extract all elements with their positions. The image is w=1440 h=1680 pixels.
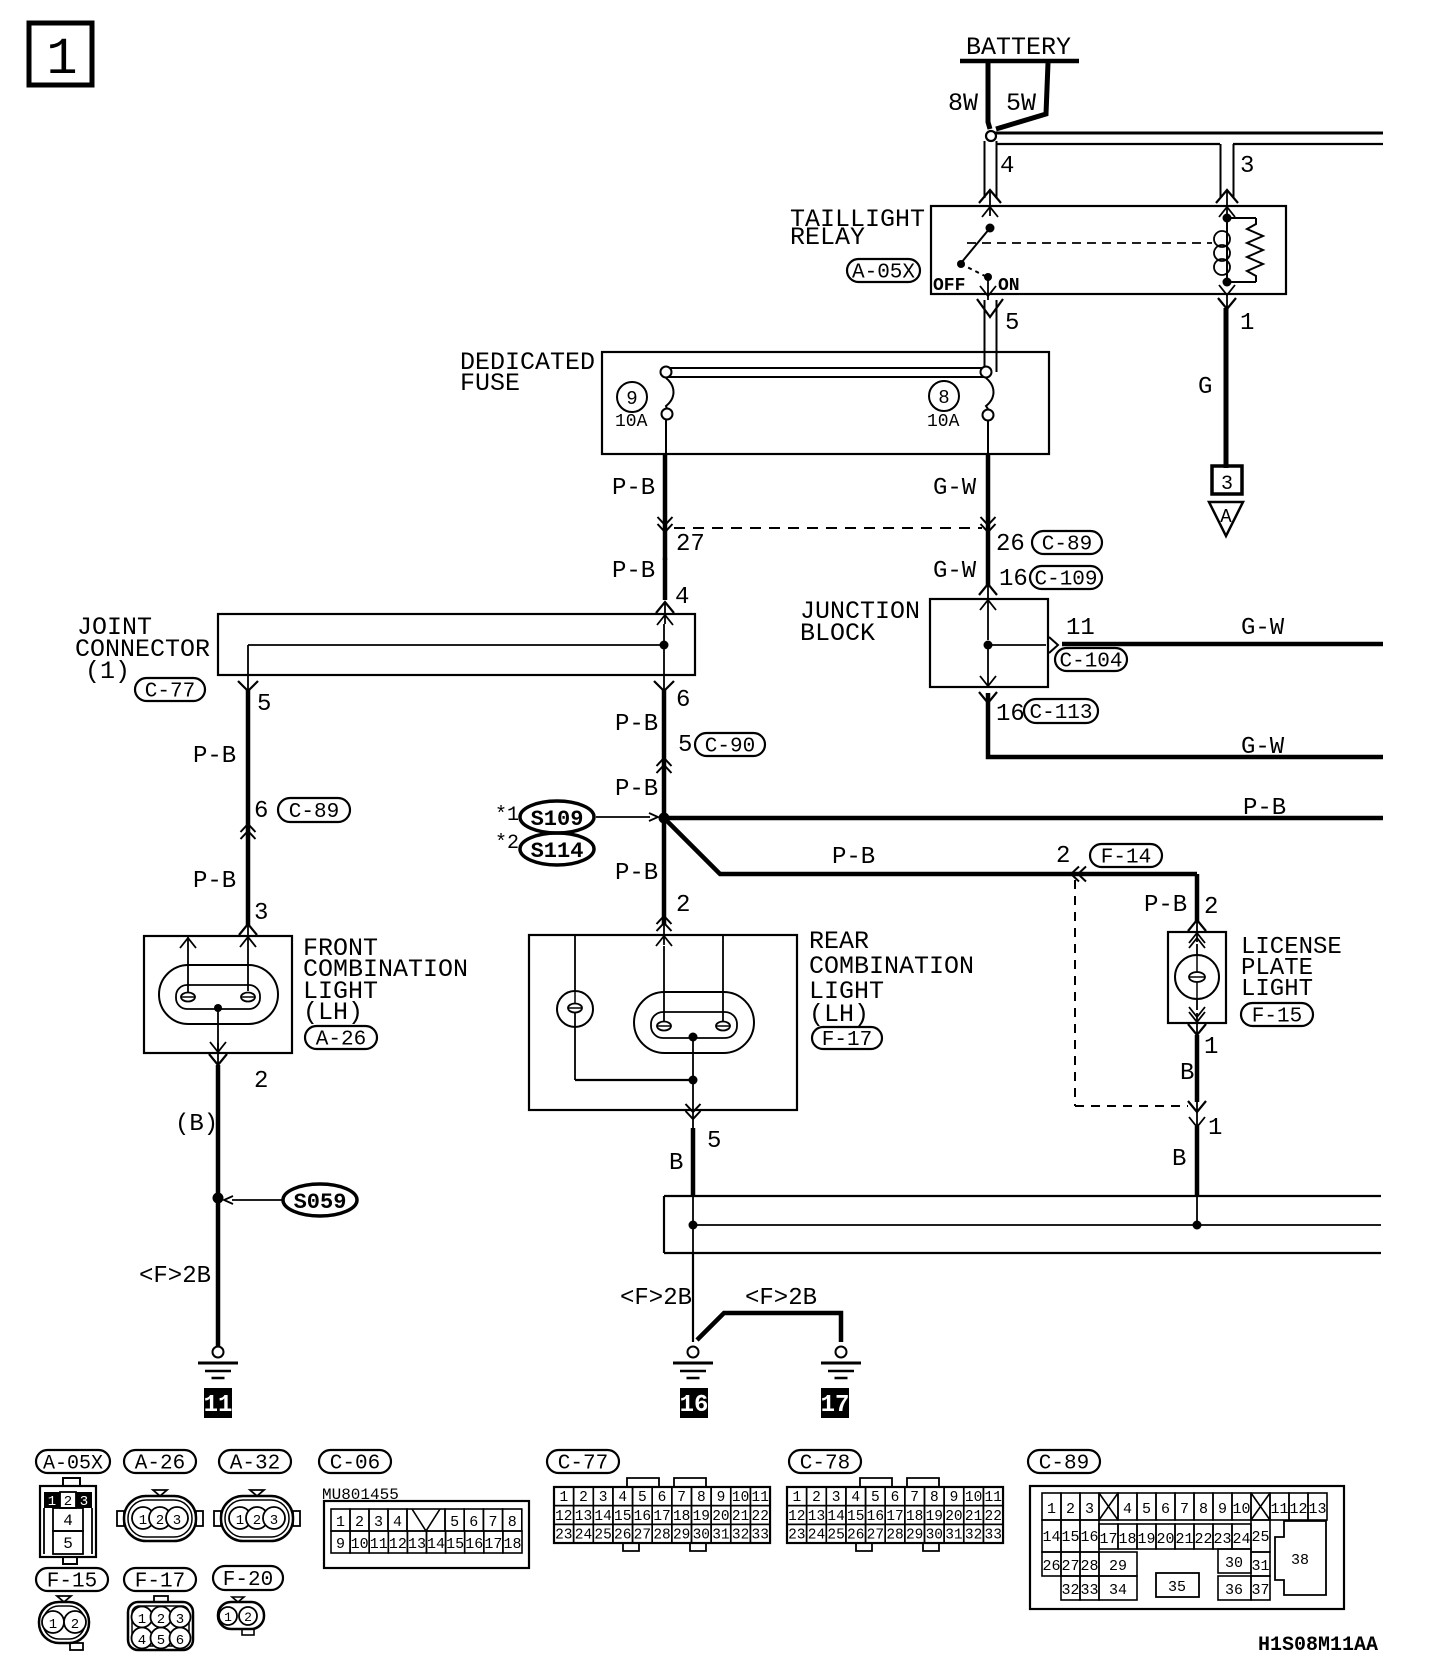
svg-text:31: 31: [1251, 1558, 1269, 1575]
svg-text:S059: S059: [294, 1190, 347, 1215]
svg-text:13: 13: [1308, 1501, 1326, 1518]
svg-text:2: 2: [254, 1068, 268, 1095]
svg-text:9: 9: [336, 1536, 345, 1553]
svg-text:2: 2: [1066, 1501, 1075, 1518]
svg-text:C-89: C-89: [1042, 534, 1092, 557]
svg-text:S109: S109: [531, 807, 584, 832]
svg-text:6: 6: [891, 1490, 900, 1506]
svg-text:25: 25: [594, 1528, 611, 1544]
svg-text:C-06: C-06: [330, 1453, 380, 1476]
svg-text:F-17: F-17: [822, 1029, 872, 1052]
svg-text:32: 32: [732, 1528, 749, 1544]
svg-text:OFF: OFF: [933, 276, 965, 296]
svg-text:19: 19: [1137, 1531, 1155, 1548]
svg-text:37: 37: [1251, 1582, 1269, 1599]
svg-text:20: 20: [945, 1509, 962, 1525]
svg-text:C-77: C-77: [145, 681, 195, 704]
svg-text:2: 2: [812, 1490, 821, 1506]
svg-text:3: 3: [1240, 153, 1254, 180]
svg-text:21: 21: [965, 1509, 982, 1525]
svg-text:3: 3: [173, 1513, 181, 1529]
svg-text:(LH): (LH): [809, 1000, 869, 1029]
svg-text:16: 16: [996, 701, 1025, 728]
svg-text:BATTERY: BATTERY: [966, 33, 1071, 62]
svg-text:17: 17: [886, 1509, 903, 1525]
svg-text:1: 1: [792, 1490, 801, 1506]
svg-text:<F>2B: <F>2B: [745, 1285, 817, 1312]
svg-text:18: 18: [503, 1536, 521, 1553]
svg-text:32: 32: [965, 1528, 982, 1544]
svg-text:1: 1: [139, 1513, 147, 1529]
svg-text:29: 29: [673, 1528, 690, 1544]
svg-text:10: 10: [351, 1536, 369, 1553]
svg-text:27: 27: [634, 1528, 651, 1544]
svg-text:2: 2: [71, 1617, 79, 1633]
svg-text:8: 8: [1199, 1501, 1208, 1518]
svg-text:1: 1: [224, 1610, 232, 1625]
svg-text:G-W: G-W: [933, 475, 977, 502]
svg-text:16: 16: [1080, 1529, 1098, 1546]
svg-text:35: 35: [1168, 1579, 1186, 1596]
svg-text:H1S08M11AA: H1S08M11AA: [1258, 1634, 1378, 1657]
svg-text:15: 15: [446, 1536, 464, 1553]
svg-text:5: 5: [871, 1490, 880, 1506]
svg-text:21: 21: [732, 1509, 749, 1525]
svg-text:11: 11: [370, 1536, 388, 1553]
svg-text:C-89: C-89: [289, 801, 339, 824]
svg-text:11: 11: [1066, 615, 1095, 642]
svg-text:31: 31: [712, 1528, 729, 1544]
svg-text:P-B: P-B: [1144, 892, 1187, 919]
svg-text:G-W: G-W: [1241, 615, 1285, 642]
svg-text:3: 3: [1221, 473, 1233, 496]
svg-text:12: 12: [555, 1509, 572, 1525]
svg-text:15: 15: [614, 1509, 631, 1525]
svg-text:5: 5: [257, 691, 271, 718]
svg-text:14: 14: [594, 1509, 611, 1525]
svg-text:P-B: P-B: [615, 776, 658, 803]
svg-text:19: 19: [926, 1509, 943, 1525]
svg-text:8: 8: [508, 1514, 517, 1531]
svg-text:4: 4: [618, 1490, 627, 1506]
svg-text:5: 5: [63, 1535, 73, 1553]
svg-text:38: 38: [1291, 1552, 1309, 1569]
svg-text:3: 3: [374, 1514, 383, 1531]
svg-text:2: 2: [244, 1610, 252, 1625]
svg-text:8W: 8W: [948, 89, 978, 118]
svg-text:4: 4: [1123, 1501, 1132, 1518]
svg-text:3: 3: [599, 1490, 608, 1506]
svg-text:1: 1: [1208, 1115, 1222, 1142]
svg-text:16: 16: [867, 1509, 884, 1525]
svg-text:6: 6: [676, 687, 690, 714]
svg-text:23: 23: [1213, 1531, 1231, 1548]
svg-text:C-77: C-77: [558, 1453, 608, 1476]
svg-text:P-B: P-B: [612, 475, 655, 502]
svg-text:C-89: C-89: [1039, 1453, 1089, 1476]
svg-text:12: 12: [788, 1509, 805, 1525]
svg-text:11: 11: [1270, 1501, 1288, 1518]
svg-text:2: 2: [579, 1490, 588, 1506]
svg-text:1: 1: [1240, 310, 1254, 337]
svg-text:11: 11: [752, 1490, 769, 1506]
svg-text:12: 12: [1289, 1501, 1307, 1518]
svg-text:8: 8: [930, 1490, 939, 1506]
svg-text:(B): (B): [175, 1111, 218, 1138]
svg-text:24: 24: [1232, 1531, 1250, 1548]
svg-text:8: 8: [938, 387, 949, 409]
svg-text:16: 16: [680, 1392, 709, 1419]
svg-text:5: 5: [157, 1633, 165, 1649]
svg-text:2: 2: [676, 892, 690, 919]
svg-text:F-15: F-15: [47, 1571, 97, 1594]
svg-text:P-B: P-B: [612, 558, 655, 585]
svg-text:30: 30: [693, 1528, 710, 1544]
svg-text:1: 1: [1047, 1501, 1056, 1518]
svg-text:17: 17: [653, 1509, 670, 1525]
svg-text:<F>2B: <F>2B: [620, 1285, 692, 1312]
svg-text:B: B: [1180, 1060, 1194, 1087]
svg-text:14: 14: [1042, 1529, 1060, 1546]
svg-text:25: 25: [1251, 1529, 1269, 1546]
svg-text:B: B: [1172, 1146, 1186, 1173]
svg-text:20: 20: [712, 1509, 729, 1525]
svg-text:26: 26: [614, 1528, 631, 1544]
svg-text:2: 2: [1204, 894, 1218, 921]
svg-text:6: 6: [176, 1633, 184, 1649]
svg-text:*1: *1: [495, 804, 519, 827]
svg-text:27: 27: [676, 531, 705, 558]
svg-text:A: A: [1220, 506, 1232, 528]
svg-text:3: 3: [832, 1490, 841, 1506]
svg-text:22: 22: [752, 1509, 769, 1525]
svg-text:C-90: C-90: [705, 736, 755, 759]
svg-text:20: 20: [1156, 1531, 1174, 1548]
svg-text:6: 6: [1161, 1501, 1170, 1518]
svg-text:3: 3: [1085, 1501, 1094, 1518]
svg-text:1: 1: [336, 1514, 345, 1531]
svg-text:15: 15: [847, 1509, 864, 1525]
svg-text:4: 4: [393, 1514, 402, 1531]
svg-text:27: 27: [1061, 1558, 1079, 1575]
svg-text:16: 16: [634, 1509, 651, 1525]
svg-text:12: 12: [389, 1536, 407, 1553]
svg-text:18: 18: [906, 1509, 923, 1525]
svg-text:FUSE: FUSE: [460, 369, 520, 398]
svg-text:26: 26: [847, 1528, 864, 1544]
svg-text:A-05X: A-05X: [852, 262, 915, 285]
svg-text:16: 16: [465, 1536, 483, 1553]
svg-text:16: 16: [999, 566, 1028, 593]
svg-text:27: 27: [867, 1528, 884, 1544]
svg-text:17: 17: [821, 1392, 850, 1419]
svg-text:23: 23: [788, 1528, 805, 1544]
svg-text:C-78: C-78: [800, 1453, 850, 1476]
svg-text:5: 5: [638, 1490, 647, 1506]
svg-text:1: 1: [49, 1617, 57, 1633]
svg-text:*2: *2: [495, 832, 519, 855]
svg-text:6: 6: [469, 1514, 478, 1531]
svg-text:30: 30: [1225, 1555, 1243, 1572]
svg-text:9: 9: [950, 1490, 959, 1506]
svg-text:6: 6: [254, 798, 268, 825]
svg-text:17: 17: [1099, 1531, 1117, 1548]
svg-text:4: 4: [675, 584, 689, 611]
svg-text:17: 17: [484, 1536, 502, 1553]
svg-text:<F>2B: <F>2B: [139, 1263, 211, 1290]
svg-text:11: 11: [985, 1490, 1002, 1506]
svg-text:5W: 5W: [1006, 89, 1036, 118]
svg-text:26: 26: [1042, 1558, 1060, 1575]
svg-text:G-W: G-W: [933, 558, 977, 585]
svg-text:21: 21: [1175, 1531, 1193, 1548]
svg-text:4: 4: [63, 1512, 73, 1530]
svg-text:C-109: C-109: [1034, 569, 1097, 592]
svg-text:A-26: A-26: [316, 1029, 366, 1052]
svg-text:7: 7: [677, 1490, 686, 1506]
svg-text:10: 10: [965, 1490, 982, 1506]
svg-text:F-14: F-14: [1101, 847, 1151, 870]
svg-text:22: 22: [1194, 1531, 1212, 1548]
svg-text:7: 7: [910, 1490, 919, 1506]
svg-text:28: 28: [886, 1528, 903, 1544]
svg-text:G: G: [1198, 374, 1212, 401]
svg-text:(LH): (LH): [303, 998, 363, 1027]
svg-text:14: 14: [427, 1536, 445, 1553]
svg-text:5: 5: [707, 1128, 721, 1155]
svg-text:6: 6: [658, 1490, 667, 1506]
svg-text:2: 2: [1056, 843, 1070, 870]
svg-text:28: 28: [1080, 1558, 1098, 1575]
svg-text:2: 2: [157, 1612, 165, 1628]
svg-text:P-B: P-B: [1243, 795, 1286, 822]
svg-text:10A: 10A: [927, 412, 960, 432]
svg-text:29: 29: [1109, 1558, 1127, 1575]
svg-text:1: 1: [559, 1490, 568, 1506]
svg-text:11: 11: [204, 1392, 233, 1419]
svg-text:2: 2: [355, 1514, 364, 1531]
svg-text:7: 7: [488, 1514, 497, 1531]
svg-text:2: 2: [156, 1513, 164, 1529]
svg-text:LIGHT: LIGHT: [1241, 976, 1313, 1003]
svg-text:18: 18: [1118, 1531, 1136, 1548]
svg-text:1: 1: [236, 1513, 244, 1529]
svg-text:22: 22: [985, 1509, 1002, 1525]
svg-text:A-32: A-32: [230, 1453, 280, 1476]
svg-text:B: B: [669, 1150, 683, 1177]
svg-text:33: 33: [985, 1528, 1002, 1544]
svg-text:34: 34: [1109, 1582, 1127, 1599]
svg-text:13: 13: [408, 1536, 426, 1553]
svg-text:P-B: P-B: [615, 860, 658, 887]
svg-text:5: 5: [1142, 1501, 1151, 1518]
svg-text:RELAY: RELAY: [790, 223, 865, 252]
svg-text:10: 10: [732, 1490, 749, 1506]
svg-text:10: 10: [1232, 1501, 1250, 1518]
svg-text:P-B: P-B: [193, 743, 236, 770]
svg-text:14: 14: [827, 1509, 844, 1525]
svg-text:S114: S114: [531, 839, 584, 864]
svg-text:9: 9: [626, 388, 637, 410]
svg-text:ON: ON: [998, 276, 1020, 296]
svg-text:P-B: P-B: [615, 711, 658, 738]
svg-text:28: 28: [653, 1528, 670, 1544]
svg-text:4: 4: [851, 1490, 860, 1506]
svg-text:4: 4: [138, 1633, 146, 1649]
svg-text:26: 26: [996, 531, 1025, 558]
svg-text:13: 13: [808, 1509, 825, 1525]
svg-text:24: 24: [808, 1528, 825, 1544]
svg-text:4: 4: [1000, 153, 1014, 180]
svg-text:A-05X: A-05X: [43, 1452, 103, 1475]
svg-text:7: 7: [1180, 1501, 1189, 1518]
svg-text:9: 9: [1218, 1501, 1227, 1518]
svg-text:36: 36: [1225, 1582, 1243, 1599]
svg-text:A-26: A-26: [135, 1453, 185, 1476]
svg-text:F-20: F-20: [223, 1569, 273, 1592]
svg-text:3: 3: [270, 1513, 278, 1529]
svg-text:31: 31: [945, 1528, 962, 1544]
svg-text:F-15: F-15: [1252, 1006, 1302, 1029]
svg-text:5: 5: [678, 732, 692, 759]
svg-text:10A: 10A: [615, 412, 648, 432]
svg-text:19: 19: [693, 1509, 710, 1525]
svg-text:9: 9: [717, 1490, 726, 1506]
svg-text:33: 33: [752, 1528, 769, 1544]
svg-text:P-B: P-B: [193, 868, 236, 895]
svg-text:29: 29: [906, 1528, 923, 1544]
svg-text:32: 32: [1061, 1582, 1079, 1599]
svg-text:18: 18: [673, 1509, 690, 1525]
svg-text:F-17: F-17: [135, 1571, 185, 1594]
svg-text:5: 5: [1005, 310, 1019, 337]
svg-text:13: 13: [575, 1509, 592, 1525]
svg-text:24: 24: [575, 1528, 592, 1544]
svg-text:8: 8: [697, 1490, 706, 1506]
svg-text:23: 23: [555, 1528, 572, 1544]
svg-text:P-B: P-B: [832, 844, 875, 871]
svg-text:G-W: G-W: [1241, 734, 1285, 761]
svg-text:C-104: C-104: [1059, 651, 1122, 674]
svg-text:1: 1: [46, 30, 77, 89]
svg-text:1: 1: [1204, 1034, 1218, 1061]
svg-text:30: 30: [926, 1528, 943, 1544]
svg-text:C-113: C-113: [1029, 702, 1092, 725]
svg-text:BLOCK: BLOCK: [800, 619, 875, 648]
svg-text:2: 2: [253, 1513, 261, 1529]
svg-text:3: 3: [254, 900, 268, 927]
svg-text:15: 15: [1061, 1529, 1079, 1546]
svg-text:25: 25: [827, 1528, 844, 1544]
svg-text:5: 5: [450, 1514, 459, 1531]
svg-text:(1): (1): [85, 657, 130, 686]
svg-text:3: 3: [176, 1612, 184, 1628]
svg-text:33: 33: [1080, 1582, 1098, 1599]
svg-text:1: 1: [138, 1612, 146, 1628]
